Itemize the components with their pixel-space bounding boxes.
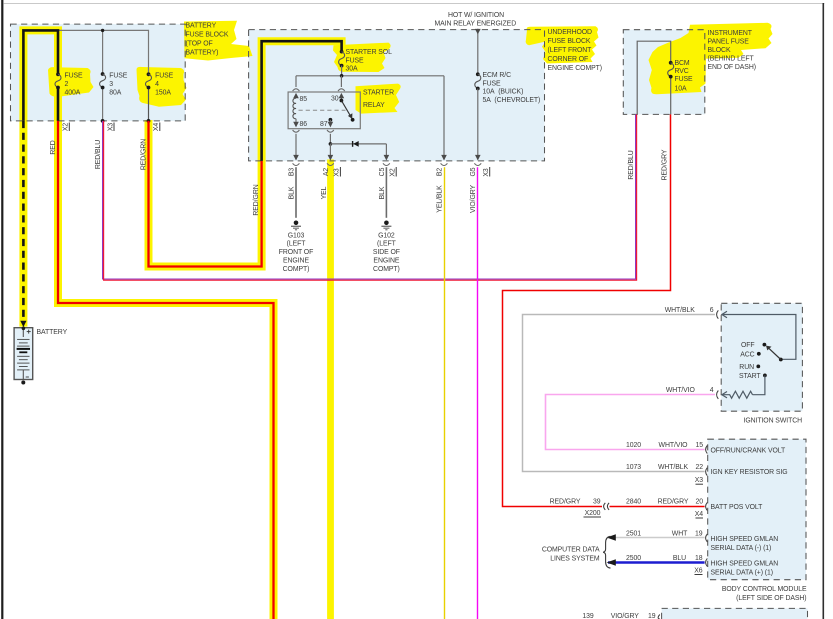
svg-text:FUSE: FUSE [346,57,365,64]
wire: diode branch horizontal [330,143,386,145]
wire: HOT W/ IGNITION feed into underhood block [477,29,479,75]
svg-text:UNDERHOOD: UNDERHOOD [548,29,593,36]
svg-text:30A: 30A [346,66,359,73]
highlighter blob: fuse 2 400A [48,67,94,97]
svg-text:X3: X3 [483,168,490,177]
svg-text:RED/GRY: RED/GRY [662,149,669,180]
svg-text:SIDE OF: SIDE OF [373,249,400,256]
svg-text:WHT: WHT [672,530,688,537]
svg-text:SERIAL DATA (-) (1): SERIAL DATA (-) (1) [711,545,772,552]
wire: bus drop to relay pin 30 [340,76,342,87]
svg-text:80A: 80A [109,90,122,97]
svg-text:10A (BUICK): 10A (BUICK) [483,89,524,96]
svg-text:150A: 150A [155,90,171,97]
wire: fuse 2 output inside block (highlighted) [57,88,60,121]
ignition pin 6 arrowhead [722,311,727,317]
wire: RED/GRY from instrument panel to BCM pin 20 via X200 [503,114,671,506]
svg-text:X2: X2 [390,168,397,177]
svg-text:RELAY: RELAY [363,102,385,109]
svg-text:X6: X6 [694,567,703,574]
svg-text:X3: X3 [334,168,341,177]
svg-text:BLOCK: BLOCK [708,47,731,54]
relay pin 30 arrow up [339,93,345,98]
svg-text:18: 18 [695,555,703,562]
wire: fuse 3 feed from top bus [102,30,104,74]
svg-text:BATTERY: BATTERY [37,329,68,336]
ignition switch internal feed from pin 6 [722,315,796,360]
svg-text:WHT/BLK: WHT/BLK [665,307,696,314]
relay stationary contact node [351,118,355,122]
svg-text:(LEFT SIDE OF DASH): (LEFT SIDE OF DASH) [736,595,806,602]
wire: pin 87 down through relay edge [329,120,331,122]
highlighter blob: instrument panel fuse block label and BCM RVC fuse [649,23,773,94]
wire: VIO/GRY from G5 to page bottom [477,167,479,619]
node: X4 terminal dot [147,119,151,123]
svg-text:RED/GRY: RED/GRY [550,499,581,506]
wire: starter sol fuse output to bus [341,66,343,76]
ignition switch box fill [721,303,802,411]
svg-text:RED/GRN: RED/GRN [140,139,147,170]
svg-text:(BEHIND LEFT: (BEHIND LEFT [708,55,755,62]
svg-text:BLU: BLU [673,555,686,562]
svg-text:19: 19 [648,613,656,619]
battery symbol box fill [14,328,33,380]
svg-text:RED/GRY: RED/GRY [658,499,689,506]
battery top terminal [22,328,24,337]
BCM pin connector arcs (15,22,20,19,18) [706,446,708,567]
svg-text:4: 4 [155,81,159,88]
frame left border [1,0,3,619]
wire: fuse 4 output to X4 [148,88,150,121]
wire: WHT/BLK from ignition pin 6 to BCM pin 22 [523,315,715,472]
svg-text:STARTER: STARTER [363,90,394,97]
svg-text:X4: X4 [695,511,704,518]
battery fuse block top bus wire (thin part fuse2 to fuse4) [58,30,149,74]
connector arc below relay pin 86 [293,130,300,132]
node: X3 terminal dot [101,119,105,123]
svg-text:RED: RED [50,140,57,154]
svg-text:WHT/BLK: WHT/BLK [658,464,689,471]
ignition position node START [763,374,767,378]
highlighter blob: battery fuse block label [184,21,253,61]
svg-text:BLK: BLK [289,186,296,199]
svg-text:INSTRUMENT: INSTRUMENT [708,30,753,37]
wire: underhood internal bus [296,75,444,77]
svg-text:BATTERY: BATTERY [186,23,217,30]
connector arc above relay pin 85 [293,89,300,91]
svg-text:86: 86 [300,121,308,128]
body control module dashed border [708,439,806,580]
svg-text:FUSE: FUSE [109,73,128,80]
svg-text:85: 85 [300,96,308,103]
connector arc above relay pin 30 [338,89,345,91]
svg-text:RED/BLU: RED/BLU [95,140,102,169]
svg-text:19: 19 [695,530,703,537]
svg-text:6: 6 [710,307,714,314]
svg-text:RED/GRN: RED/GRN [253,184,260,215]
relay mechanical link (dashed) [299,109,346,111]
bottom module box fill [662,608,808,619]
svg-text:YEL: YEL [321,186,328,199]
svg-text:ECM R/C: ECM R/C [483,72,512,79]
battery fuse block box fill [11,24,186,121]
svg-text:39: 39 [593,499,601,506]
svg-text:1073: 1073 [626,464,641,471]
svg-text:END OF DASH): END OF DASH) [708,64,756,71]
svg-text:BATTERY): BATTERY) [186,50,219,57]
svg-text:RVC: RVC [675,68,689,75]
wire: WHT/VIO from ignition pin 4 to BCM pin 15 [546,395,715,450]
instrument panel fuse block dashed border [623,30,705,115]
highlighted wire band: RED/GRN run from fuse 4 into underhood block to starter sol fuse [149,41,342,266]
svg-text:FRONT OF: FRONT OF [279,249,313,256]
ignition position node RUN [756,365,760,369]
ignition switch rotary contact node [779,358,783,362]
wire: fuse 3 output to X3 [102,88,104,121]
svg-text:87: 87 [320,121,328,128]
bottom module pin 19 connector arc [658,615,660,619]
svg-text:OFF: OFF [741,342,755,349]
svg-text:G103: G103 [288,232,305,239]
fuse F3 80A symbol [101,72,105,76]
svg-text:STARTER SOL: STARTER SOL [346,49,393,56]
resistor (ign key resistor) [722,391,753,398]
svg-text:HIGH SPEED GMLAN: HIGH SPEED GMLAN [711,560,779,567]
svg-text:IGNITION SWITCH: IGNITION SWITCH [743,417,802,424]
svg-text:3: 3 [109,81,113,88]
underhood fuse block dashed border [249,30,545,161]
ignition switch arm toward OFF [768,348,781,360]
ignition pin 4 connector arc [717,391,719,399]
bottom module dashed border (top and side edges, cut off at page bottom) [662,608,808,619]
instrument panel inner link wire (RED/BLU leg, top link, fuse leg) [637,41,671,114]
svg-text:FUSE BLOCK: FUSE BLOCK [186,32,229,39]
relay pin 86 arrow down [293,122,299,128]
arrow on WHT data line [607,534,616,540]
highlighter blob: fuse 4 150A [137,67,187,107]
battery plates [17,339,29,346]
battery bottom stub and ground node [22,370,24,380]
inline connector X200 [604,503,606,510]
connector arc below relay pin 87 [327,130,334,132]
wire: RED/BLU below X3 (violet+red pair) [103,114,636,279]
svg-text:B2: B2 [436,168,443,177]
instrument panel fuse block box fill [623,30,705,115]
svg-text:A2: A2 [323,168,330,177]
wire: bus drop to relay pin 85 [295,76,297,87]
highlighted wire band: battery cable to fuse 2 and RED wire run [23,30,58,326]
svg-text:IGN KEY RESISTOR SIG: IGN KEY RESISTOR SIG [711,469,788,476]
svg-text:X3: X3 [695,477,704,484]
battery fuse block dashed border [11,24,186,121]
battery symbol box [14,328,33,380]
frame right border [823,3,825,619]
ignition pin 6 connector arc [717,310,719,318]
fuse F2 400A symbol [56,72,60,76]
svg-text:FUSE: FUSE [483,80,502,87]
wire: BLK from C5 to ground G102 [385,167,387,218]
ignition position node ACC [757,352,761,356]
svg-text:VIO/GRY: VIO/GRY [611,613,640,619]
svg-text:SERIAL DATA (+) (1): SERIAL DATA (+) (1) [711,570,774,577]
arrow into battery [20,321,26,327]
svg-text:COMPT): COMPT) [373,266,400,273]
fuse F4 150A symbol [147,72,151,76]
svg-text:22: 22 [695,464,703,471]
svg-text:COMPT): COMPT) [283,266,310,273]
wire: relay 87 to junction [329,134,331,144]
wire: 87 junction to A2 exit [329,144,331,160]
brace for computer data lines system [603,536,610,568]
svg-text:X2: X2 [63,123,70,132]
wire: RED below X2 (highlighted) [58,121,274,619]
svg-text:(LEFT: (LEFT [287,241,307,248]
svg-text:ACC: ACC [740,351,754,358]
svg-text:WHT/VIO: WHT/VIO [666,387,696,394]
relay pin 87 node [329,118,333,122]
svg-text:BODY CONTROL MODULE: BODY CONTROL MODULE [722,586,807,593]
svg-text:1020: 1020 [626,442,641,449]
svg-text:ENGINE COMPT): ENGINE COMPT) [548,65,602,72]
svg-text:2500: 2500 [626,555,641,562]
svg-text:X4: X4 [153,123,160,132]
svg-text:400A: 400A [65,90,81,97]
svg-text:2501: 2501 [626,530,641,537]
svg-text:ENGINE: ENGINE [283,258,309,265]
highlighter blob: starter sol fuse 30A [333,43,391,72]
ground G103 symbol [294,221,299,226]
svg-text:2: 2 [65,81,69,88]
svg-text:HIGH SPEED GMLAN: HIGH SPEED GMLAN [711,536,779,543]
svg-text:START: START [739,373,761,380]
svg-text:30: 30 [331,96,339,103]
wire: BLK from B3 to ground G103 [295,167,297,218]
wire: YEL/BLK from B2 to page bottom [444,167,446,619]
svg-text:4: 4 [710,387,714,394]
ignition position node OFF [763,343,767,347]
svg-text:YEL/BLK: YEL/BLK [437,185,444,213]
wire: diode branch down to C5 exit [385,144,387,160]
relay coil between 85 and 86 [293,98,296,118]
svg-text:LINES SYSTEM: LINES SYSTEM [550,555,600,562]
wire: highlighted battery cable dashed segment to battery [22,121,25,322]
ground G102 symbol [384,221,389,226]
wire: relay 86 to B3 exit [295,134,297,160]
svg-text:FUSE BLOCK: FUSE BLOCK [548,38,591,45]
fuse: starter sol fuse symbol [340,50,344,54]
svg-text:OFF/RUN/CRANK VOLT: OFF/RUN/CRANK VOLT [711,447,786,454]
diode D1 (cathode bar left, pointing left) [352,141,354,147]
svg-text:CORNER OF: CORNER OF [548,56,589,63]
body control module box fill [708,439,806,580]
svg-text:(TOP OF: (TOP OF [186,41,213,48]
relay contact arm [341,101,350,117]
svg-text:VIO/GRY: VIO/GRY [470,185,477,214]
wire: BLU serial data to BCM pin 18 [608,561,705,564]
fuse: BCM RVC fuse symbol [669,61,673,65]
ignition pin 4 arrowhead [722,392,727,398]
node: bus junction at starter sol fuse [340,74,344,78]
svg-text:10A: 10A [675,85,688,92]
frame top border [3,3,824,4]
svg-text:ENGINE: ENGINE [373,258,399,265]
svg-text:G102: G102 [378,232,395,239]
svg-text:RED/BLU: RED/BLU [628,150,635,179]
fuse: ECM R/C fuse symbol [476,72,480,76]
highlighted wire band: YEL wire from A2 to page bottom [327,160,334,619]
battery minus sign [26,376,29,378]
exit arrows and connector arcs at underhood block bottom edge (pins B3,A2,C5,B2,G5) [293,155,480,161]
ignition switch dashed border [721,303,802,411]
svg-text:139: 139 [582,613,594,619]
highlighter blob: underhood fuse block label [526,26,599,63]
node: junction dot top bus at fuse 3 [101,29,104,32]
relay contact pivot node at pin 30 [340,98,342,101]
svg-text:MAIN RELAY ENERGIZED: MAIN RELAY ENERGIZED [434,20,516,27]
svg-text:C5: C5 [379,167,386,176]
svg-text:X3: X3 [107,123,114,132]
relay pin 85 arrow up [293,93,299,98]
svg-text:FUSE: FUSE [65,73,84,80]
underhood fuse block box fill [249,30,545,161]
svg-text:X200: X200 [585,510,601,517]
wire: START position to resistor [753,375,765,394]
svg-text:2840: 2840 [626,499,641,506]
svg-text:WHT/VIO: WHT/VIO [659,442,689,449]
wire: RED/GRN below X4 (highlighted) [149,121,262,267]
svg-text:20: 20 [695,499,703,506]
svg-text:FUSE: FUSE [675,76,694,83]
wire: WHT serial data to BCM pin 19 [608,537,705,539]
svg-text:(LEFT: (LEFT [377,241,397,248]
svg-text:FUSE: FUSE [155,73,174,80]
svg-text:5A (CHEVROLET): 5A (CHEVROLET) [483,97,541,104]
arrow into underhood block top [475,29,481,34]
wire: highlighted battery positive cable (solid inside block) [23,30,58,121]
arrow on BLU data line [607,559,616,566]
highlighter blob: starter relay label [356,84,401,114]
wire: RED/GRN riser inside underhood block to starter sol fuse [262,41,342,161]
svg-text:G5: G5 [470,167,477,176]
svg-text:COMPUTER DATA: COMPUTER DATA [542,547,600,554]
starter relay box [288,92,360,129]
svg-text:BLK: BLK [379,186,386,199]
svg-text:BATT POS VOLT: BATT POS VOLT [711,504,764,511]
battery plus sign [27,331,31,333]
svg-text:B3: B3 [289,168,296,177]
svg-text:PANEL FUSE: PANEL FUSE [708,39,750,46]
svg-text:(LEFT FRONT: (LEFT FRONT [548,47,593,54]
wire: ECM fuse output to G5 [477,89,479,160]
svg-text:BCM: BCM [675,60,690,67]
node: junction on 87 output [329,142,333,146]
svg-text:RUN: RUN [739,364,754,371]
svg-text:HOT W/ IGNITION: HOT W/ IGNITION [448,12,504,19]
wire: bus drop to B2 exit [443,76,445,160]
svg-text:15: 15 [695,442,703,449]
